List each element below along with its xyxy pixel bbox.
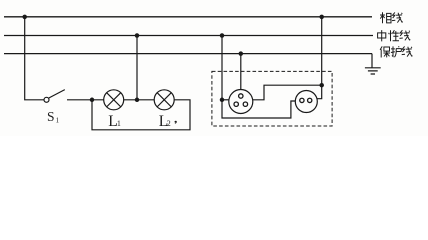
wire: socket X1 right pin up and over to live node D [253, 85, 322, 100]
node: junction dot on neutral bus above lamps [135, 33, 140, 38]
svg-text:1: 1 [56, 116, 60, 124]
lamp L2 circle [154, 90, 174, 110]
svg-text:2: 2 [167, 119, 171, 128]
socket box (dashed enclosure) [212, 71, 332, 126]
wire: lamp L2 return loop to node A [92, 100, 190, 130]
node: junction dot on live bus feeding sockets [319, 15, 324, 20]
wire: drop from live bus to switch S1 [25, 17, 44, 100]
node: junction dot on protective-earth bus feeding socket X1 [239, 51, 244, 56]
socket X1 (3-hole) body [229, 90, 253, 114]
net label: 相线 (live wire) [380, 12, 391, 23]
ground symbol [365, 68, 381, 74]
wire: drop from live bus into socket box [321, 17, 323, 85]
lamp L2 cross [157, 93, 171, 107]
socket X1 left hole [234, 102, 238, 106]
socket X1 earth hole [239, 94, 243, 98]
stray comma mark after L2 [174, 121, 176, 124]
lamp L1 cross [107, 93, 121, 107]
wire: neutral line (中性线) bus [4, 35, 373, 37]
socket X2 right hole [308, 98, 312, 102]
wire: node D down to socket X2 right pin [317, 85, 322, 99]
socket X2 (2-hole) body [295, 91, 317, 113]
wire: live line (相线) bus [4, 16, 372, 18]
wire: drop from neutral bus to node B [136, 36, 138, 100]
svg-text:S: S [47, 109, 55, 124]
switch S1 pivot [44, 97, 49, 102]
wire: node C to socket X1 left pin [222, 99, 229, 101]
svg-text:1: 1 [117, 119, 121, 128]
wire: protective earth line (保护线) bus [4, 53, 372, 55]
node A: junction dot (switched live to lamps) [90, 98, 95, 103]
node D: junction dot live inside box [319, 83, 324, 88]
node: junction dot on neutral bus feeding sockets [220, 33, 225, 38]
socket X2 left hole [300, 98, 304, 102]
wire: drop from protective-earth bus to socket X1 earth pin [240, 54, 242, 90]
wire: lamp L1 to lamp L2 [124, 99, 155, 101]
wire: switch S1 to lamp branch node A [67, 99, 104, 101]
wire: neutral run under socket X1 to socket X2 left pin [222, 100, 295, 118]
switch S1 blade [49, 90, 65, 98]
net label: 中性线 (neutral wire) [378, 30, 386, 41]
lamp L1 circle [104, 90, 124, 110]
net label: 保护线 (protective earth wire) [380, 46, 390, 57]
socket X1 right hole [243, 102, 247, 106]
node B: junction dot between lamps (neutral tie) [135, 98, 140, 103]
wire: drop from neutral bus into socket box [221, 36, 223, 100]
wire: protective-earth bus to ground electrode [371, 54, 373, 68]
node: junction dot on live bus feeding switch S1 [22, 15, 27, 20]
node C: junction dot neutral inside box [220, 98, 225, 103]
